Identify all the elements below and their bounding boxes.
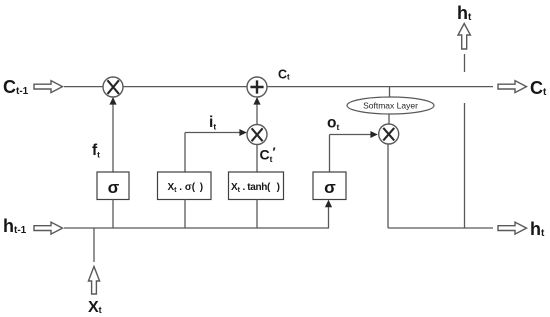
output block arrow Ct — [498, 81, 527, 93]
wire X2 to adder — [253, 97, 260, 125]
wire sigma1 to h-line — [112, 200, 114, 229]
input block arrow Xt up — [88, 267, 99, 295]
wire tanh box to h-line — [256, 200, 258, 229]
output block arrow ht right — [498, 222, 527, 234]
svg-text:σ: σ — [108, 178, 120, 197]
multiplier node X3 — [379, 124, 399, 144]
gate box sigma1 — [97, 172, 129, 200]
multiplier node X1 — [103, 77, 123, 97]
dashed wire below ht arrow — [464, 54, 466, 72]
softmax layer ellipse — [347, 97, 434, 114]
wire sigma1 to X1 — [109, 97, 116, 172]
svg-text:σ: σ — [324, 178, 336, 197]
wire X3 down to h-line — [387, 144, 389, 228]
multiplier node X2 — [247, 125, 267, 145]
wire o-gate to X3 — [330, 131, 378, 172]
wire h-line right segment — [388, 227, 493, 229]
wire Xt drop — [93, 228, 95, 262]
wire tanh box to X2 — [256, 145, 258, 173]
gate box sigma2 — [313, 172, 346, 200]
wire tick cell line to softmax — [389, 87, 391, 97]
input block arrow ht-1 — [34, 222, 63, 234]
wire i-gate to X2 — [185, 129, 247, 172]
wire Xt-sigma box to h-line — [184, 200, 186, 229]
input block arrow Ct-1 — [34, 81, 63, 93]
gate box Xt sigma — [158, 172, 212, 200]
gate box Xt tanh — [229, 172, 284, 200]
output block arrow ht up — [458, 24, 470, 50]
svg-text:Softmax Layer: Softmax Layer — [363, 101, 418, 111]
adder node + — [247, 77, 267, 97]
wire right vertical to h-line — [464, 103, 466, 228]
wire cell-state line — [64, 86, 493, 88]
wire softmax to X3 — [388, 114, 390, 124]
wire h-line left segment — [64, 227, 329, 229]
wire h-line to sigma2 with arrowhead — [325, 200, 332, 228]
